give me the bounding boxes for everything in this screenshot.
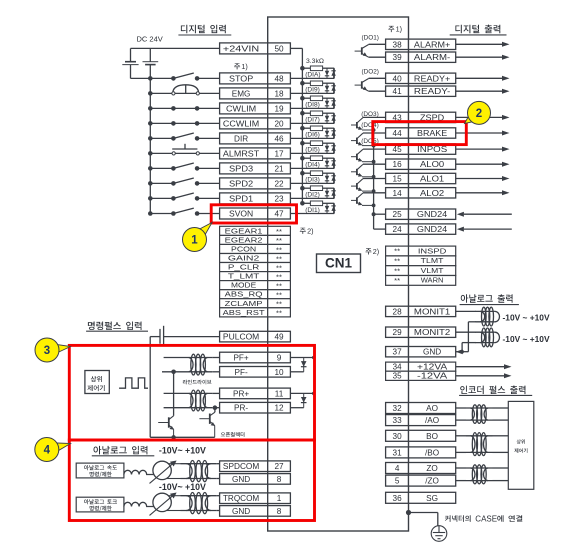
pin EGEAR2 row xyxy=(220,235,268,244)
svg-text:46: 46 xyxy=(274,134,284,143)
svg-text:20: 20 xyxy=(274,119,284,128)
pin CWLIM name box xyxy=(220,103,268,114)
wire output ALARM+ xyxy=(456,43,503,45)
svg-text:(DI8): (DI8) xyxy=(305,102,320,109)
pin ABS_RQ row xyxy=(220,290,268,299)
pin 30 number box xyxy=(386,430,409,441)
svg-text:SPD3: SPD3 xyxy=(229,164,254,173)
svg-text:34: 34 xyxy=(393,363,402,372)
svg-text:4: 4 xyxy=(44,445,51,457)
wire pot to braid bottom xyxy=(167,478,181,480)
wire PF+ to box xyxy=(212,357,219,359)
pin 5 number box xyxy=(386,475,409,486)
switch CCWLIM row xyxy=(150,122,173,124)
transistor (DO4) xyxy=(356,138,358,144)
svg-text:32: 32 xyxy=(393,404,403,413)
svg-text:DIR: DIR xyxy=(234,134,248,143)
wire monit1 return xyxy=(468,321,476,323)
highlight box 4 analog xyxy=(69,440,314,521)
optocoupler (DI8) xyxy=(300,96,305,101)
pin 32 number box xyxy=(386,403,409,414)
twisted pair encoder xyxy=(466,407,493,409)
switch SVON row xyxy=(150,213,173,215)
wire emitter rail xyxy=(150,436,215,438)
switch EMG row xyxy=(150,92,173,94)
pin 20 number box xyxy=(268,118,291,129)
pin 21 number box xyxy=(268,163,291,174)
pin TLMT row xyxy=(386,256,409,266)
svg-text:VLMT: VLMT xyxy=(421,266,444,275)
transistor Q2 xyxy=(209,414,211,424)
svg-text:15: 15 xyxy=(393,175,403,184)
pin /AO name box xyxy=(409,415,456,426)
pin SPD1 name box xyxy=(220,193,268,204)
svg-text:48: 48 xyxy=(274,74,284,83)
svg-text:**: ** xyxy=(276,309,282,318)
squiggle wire xyxy=(124,470,154,474)
capacitor pulcom coupling xyxy=(159,329,161,344)
svg-text:CCWLIM: CCWLIM xyxy=(223,119,259,128)
svg-text:16: 16 xyxy=(393,160,403,169)
wire monit2 return xyxy=(462,342,476,344)
wire PF- to box xyxy=(212,371,219,373)
pin 17 number box xyxy=(268,148,291,159)
svg-text:GND24: GND24 xyxy=(417,225,448,234)
pin PULCOM name box xyxy=(220,331,268,342)
pin EGEAR1 row xyxy=(220,226,268,235)
svg-text:24: 24 xyxy=(393,225,403,234)
wire gnd24 input xyxy=(464,213,512,215)
switch SPD2 row xyxy=(150,182,173,184)
pin BRAKE name box xyxy=(409,128,456,138)
svg-text:/BO: /BO xyxy=(425,448,439,457)
pin GND name box xyxy=(409,347,456,357)
svg-text:SPD2: SPD2 xyxy=(229,179,254,188)
svg-text:PF-: PF- xyxy=(234,368,247,377)
svg-text:CN1: CN1 xyxy=(325,256,352,271)
pin +12VA name box xyxy=(409,362,456,371)
pin 11 number box xyxy=(268,388,291,399)
note ju2 left xyxy=(300,228,306,234)
transistor Q1 xyxy=(168,417,170,427)
pin SVON name box xyxy=(220,208,268,219)
optocoupler (DI7) xyxy=(300,111,305,116)
wire PULCOM left xyxy=(164,336,220,338)
header digital input xyxy=(181,25,226,34)
pin 18 number box xyxy=(268,88,291,99)
pin /BO name box xyxy=(409,447,456,458)
wire encoder pair xyxy=(456,435,466,437)
svg-text:/AO: /AO xyxy=(425,416,439,425)
svg-text:38: 38 xyxy=(393,40,403,49)
wire +12VA xyxy=(456,366,505,368)
optocoupler (DI1) xyxy=(300,201,305,206)
pin MODE row xyxy=(220,281,268,290)
pin 33 number box xyxy=(386,415,409,426)
pin MONIT1 name box xyxy=(409,306,456,316)
pin 23 number box xyxy=(268,193,291,204)
transistor QALO1 xyxy=(356,183,358,189)
svg-text:MODE: MODE xyxy=(231,281,256,290)
wire gnd analog xyxy=(456,351,469,353)
source box 아날로그 속도 xyxy=(76,463,124,478)
wire output ALARM- xyxy=(456,56,503,58)
svg-text:T_LMT: T_LMT xyxy=(228,272,260,281)
svg-text:33: 33 xyxy=(393,416,403,425)
svg-text:**: ** xyxy=(394,247,400,256)
svg-text:29: 29 xyxy=(393,328,403,337)
svg-text:EGEAR2: EGEAR2 xyxy=(225,235,263,244)
pin 8 number box xyxy=(268,474,291,485)
svg-text:ALARM-: ALARM- xyxy=(414,53,451,62)
pin ALO0 name box xyxy=(409,159,456,169)
wire PR- stub xyxy=(164,407,184,409)
svg-text:**: ** xyxy=(394,257,400,266)
wire encoder to host xyxy=(493,435,509,437)
svg-text:ZCLAMP: ZCLAMP xyxy=(225,299,263,308)
pin 49 number box xyxy=(268,331,291,342)
svg-text:GAIN2: GAIN2 xyxy=(228,254,260,263)
svg-text:2): 2) xyxy=(307,226,313,235)
optocoupler (DIA) xyxy=(300,66,305,71)
svg-text:ZO: ZO xyxy=(426,464,437,473)
wire Q2 collector riser xyxy=(214,408,216,413)
svg-text:49: 49 xyxy=(274,333,284,342)
svg-text:PR+: PR+ xyxy=(233,389,249,398)
wire collector BRAKE xyxy=(363,132,386,134)
pin GND24 name box xyxy=(409,209,456,219)
pin 50 number box xyxy=(268,43,291,54)
svg-text:+24VIN: +24VIN xyxy=(223,44,259,53)
wire +24V top xyxy=(131,47,220,49)
switch CWLIM row xyxy=(150,107,173,109)
pin PF+ name box xyxy=(220,352,268,363)
svg-text:+12VA: +12VA xyxy=(417,363,448,372)
wire battery bottom xyxy=(131,77,151,79)
wire pot to braid top xyxy=(168,495,180,497)
wire PF- stub xyxy=(162,371,184,373)
callout 1 xyxy=(198,223,212,237)
svg-text:-12VA: -12VA xyxy=(417,372,448,381)
svg-text:-10V ~ +10V: -10V ~ +10V xyxy=(503,334,550,344)
pin AO name box xyxy=(409,403,456,414)
svg-text:10: 10 xyxy=(274,368,284,377)
svg-text:(DO1): (DO1) xyxy=(362,34,379,41)
wire PF+ stub xyxy=(164,357,184,359)
svg-text:(DI1): (DI1) xyxy=(305,207,320,214)
pin 40 number box xyxy=(386,73,409,83)
callout 2 xyxy=(465,115,475,124)
wire output READY+ xyxy=(456,77,503,79)
twisted pair PF coils xyxy=(184,357,212,359)
wire output INPOS xyxy=(456,148,503,150)
svg-text:ALO1: ALO1 xyxy=(420,175,445,184)
optocoupler (DI9) xyxy=(300,81,305,86)
connector CN1 outline xyxy=(268,17,409,531)
svg-text:AO: AO xyxy=(426,404,438,413)
svg-text:8: 8 xyxy=(277,475,282,484)
svg-text:BO: BO xyxy=(426,432,438,441)
svg-text:EMG: EMG xyxy=(232,89,251,98)
transistor QALO0 xyxy=(356,169,358,175)
svg-text:1: 1 xyxy=(277,494,282,503)
pin 39 number box xyxy=(386,52,409,62)
pin 46 number box xyxy=(268,133,291,144)
svg-text:2: 2 xyxy=(476,108,482,120)
pin GND name box xyxy=(220,506,268,517)
svg-text:READY-: READY- xyxy=(414,87,451,96)
squiggle wire xyxy=(124,502,154,506)
note ju1 left xyxy=(234,63,240,69)
transistor (DO5) xyxy=(356,154,358,160)
svg-text:21: 21 xyxy=(274,164,284,173)
pin 31 number box xyxy=(386,447,409,458)
battery cell left xyxy=(130,48,132,61)
svg-text:ALMRST: ALMRST xyxy=(223,149,259,158)
pin SPD2 name box xyxy=(220,178,268,189)
svg-text:EGEAR1: EGEAR1 xyxy=(225,226,263,235)
pin ABS_RST row xyxy=(220,308,268,317)
svg-text:DC 24V: DC 24V xyxy=(137,35,163,44)
pin 41 number box xyxy=(386,86,409,96)
svg-text:READY+: READY+ xyxy=(414,74,451,83)
wire gnd24 bus join xyxy=(372,212,376,216)
pin SPDCOM name box xyxy=(220,461,268,472)
svg-text:4: 4 xyxy=(395,464,400,473)
svg-text:39: 39 xyxy=(393,53,403,62)
wire case xyxy=(406,510,411,515)
svg-text:27: 27 xyxy=(274,462,284,471)
pin DIR name box xyxy=(220,133,268,144)
svg-text:-10V~ +10V: -10V~ +10V xyxy=(159,482,206,492)
pin 4 number box xyxy=(386,463,409,474)
pin 15 number box xyxy=(386,173,409,183)
callout 4 xyxy=(55,443,71,452)
pin GND name box xyxy=(220,474,268,485)
svg-text:-10V~ +10V: -10V~ +10V xyxy=(159,445,206,455)
pin CCWLIM name box xyxy=(220,118,268,129)
wire collector ALO0 xyxy=(363,163,386,165)
wire PR- to box xyxy=(212,407,219,409)
svg-text:/ZO: /ZO xyxy=(425,477,439,486)
pin BO name box xyxy=(409,430,456,441)
svg-text:ABS_RST: ABS_RST xyxy=(223,308,265,317)
pin PF- name box xyxy=(220,367,268,378)
pin TRQCOM name box xyxy=(220,493,268,504)
wire monit2 xyxy=(456,331,476,333)
twisted pair analog braid xyxy=(181,463,217,465)
earth ground symbol xyxy=(431,526,447,542)
wire PR+ stub xyxy=(164,392,184,394)
wire encoder to host xyxy=(493,467,509,469)
svg-text:ABS_RQ: ABS_RQ xyxy=(225,290,263,299)
svg-text:(DO2): (DO2) xyxy=(362,68,379,75)
pin 1 number box xyxy=(268,493,291,504)
svg-text:TLMT: TLMT xyxy=(421,256,444,265)
svg-text:PR-: PR- xyxy=(234,404,248,413)
svg-text:47: 47 xyxy=(274,210,284,219)
pin EMG name box xyxy=(220,88,268,99)
svg-text:GND: GND xyxy=(423,348,441,357)
svg-text:14: 14 xyxy=(393,189,403,198)
wire pot to braid top xyxy=(168,463,180,465)
pin 47 number box xyxy=(268,208,291,219)
pin 22 number box xyxy=(268,178,291,189)
pin 48 number box xyxy=(268,73,291,84)
svg-text:MONIT1: MONIT1 xyxy=(414,307,451,316)
pin VLMT row xyxy=(386,266,409,276)
svg-text:44: 44 xyxy=(393,129,403,138)
svg-text:INPOS: INPOS xyxy=(417,145,448,154)
pin SPD3 name box xyxy=(220,163,268,174)
wire encoder pair xyxy=(456,467,466,469)
wire Q1 collector riser xyxy=(173,372,175,416)
source box 아날로그 토크 xyxy=(76,497,124,512)
header encoder output xyxy=(460,386,525,395)
host controller box left xyxy=(85,371,109,394)
battery cell right xyxy=(149,48,151,61)
svg-text:GND: GND xyxy=(232,507,250,516)
svg-text:CWLIM: CWLIM xyxy=(226,104,256,113)
optocoupler (DI2) xyxy=(300,186,305,191)
svg-text:PCON: PCON xyxy=(231,245,256,254)
pin 14 number box xyxy=(386,188,409,198)
svg-text:1): 1) xyxy=(241,62,247,71)
svg-text:BRAKE: BRAKE xyxy=(417,129,448,138)
pin ALMRST name box xyxy=(220,148,268,159)
pin INPOS name box xyxy=(409,144,456,154)
highlight box 2 BRAKE xyxy=(373,122,467,145)
potentiometer xyxy=(153,461,171,479)
wire inner left vertical xyxy=(149,337,151,438)
note ju2 right xyxy=(366,248,372,254)
header digital output xyxy=(455,25,500,34)
svg-text:12: 12 xyxy=(274,404,284,413)
svg-text:SG: SG xyxy=(426,494,438,503)
wire gnd24 input xyxy=(464,228,512,230)
svg-text:TRQCOM: TRQCOM xyxy=(223,494,259,503)
optocoupler (DI5) xyxy=(300,141,305,146)
wire encoder to host xyxy=(493,407,509,409)
diode termination xyxy=(290,357,313,359)
pin 25 number box xyxy=(386,209,409,219)
svg-text:INSPD: INSPD xyxy=(418,246,447,255)
svg-text:35: 35 xyxy=(393,372,402,381)
wire PR+ to box xyxy=(212,392,219,394)
twisted pair monit2 xyxy=(476,331,495,333)
label case connect xyxy=(445,515,471,522)
pin 24 number box xyxy=(386,224,409,234)
pin READY+ name box xyxy=(409,73,456,83)
svg-text:SPDCOM: SPDCOM xyxy=(223,462,259,471)
wire output BRAKE xyxy=(456,132,503,134)
optocoupler (DI4) xyxy=(300,156,305,161)
svg-text:**: ** xyxy=(394,276,400,285)
pin 45 number box xyxy=(386,144,409,154)
svg-text:5: 5 xyxy=(395,477,400,486)
twisted pair encoder xyxy=(466,435,493,437)
transistor (DO1) xyxy=(361,47,363,54)
header command pulse input xyxy=(88,322,142,331)
svg-text:2): 2) xyxy=(373,247,379,256)
pulse waveform icon xyxy=(119,378,148,388)
svg-text:ALO0: ALO0 xyxy=(420,160,445,169)
pin +24VIN name box xyxy=(220,43,268,54)
svg-text:23: 23 xyxy=(274,194,284,203)
wire monit1 xyxy=(456,310,476,312)
pin T_LMT row xyxy=(220,272,268,281)
wire collector INPOS xyxy=(363,148,386,150)
svg-text:(DI3): (DI3) xyxy=(305,177,320,184)
svg-text:MONIT2: MONIT2 xyxy=(414,328,451,337)
host controller box right xyxy=(508,401,534,489)
wire +24VIN to opto bus xyxy=(290,47,302,49)
pin 16 number box xyxy=(386,159,409,169)
svg-text:(DI2): (DI2) xyxy=(305,192,320,199)
svg-text:(DI4): (DI4) xyxy=(305,162,320,169)
svg-text:9: 9 xyxy=(277,354,282,363)
svg-text:28: 28 xyxy=(393,307,403,316)
pin ALO1 name box xyxy=(409,173,456,183)
pin 34 number box xyxy=(386,362,409,371)
pin STOP name box xyxy=(220,73,268,84)
pin 12 number box xyxy=(268,402,291,413)
potentiometer xyxy=(153,493,171,511)
wire encoder pair xyxy=(456,407,466,409)
switch DIR row xyxy=(150,137,173,139)
pin 19 number box xyxy=(268,103,291,114)
svg-text:GND24: GND24 xyxy=(417,210,448,219)
pin 37 number box xyxy=(386,347,409,357)
pin 28 number box xyxy=(386,306,409,316)
wire collector ALO2 xyxy=(363,192,386,194)
pin 9 number box xyxy=(268,352,291,363)
transistor (DO2) xyxy=(361,81,363,88)
svg-text:(DI6): (DI6) xyxy=(305,132,320,139)
pin GAIN2 row xyxy=(220,254,268,263)
pin /ZO name box xyxy=(409,475,456,486)
pin WARN row xyxy=(386,276,409,286)
wire -12VA xyxy=(456,375,505,377)
highlight box 3 pulse xyxy=(69,345,314,440)
pin ZSPD name box xyxy=(409,112,456,122)
transistor (DO3) xyxy=(356,122,358,128)
pin GND24 name box xyxy=(409,224,456,234)
svg-text:SVON: SVON xyxy=(229,210,253,219)
svg-text:P_CLR: P_CLR xyxy=(228,263,260,272)
wire output ALO0 xyxy=(456,163,503,165)
svg-text:8: 8 xyxy=(277,507,282,516)
pin MONIT2 name box xyxy=(409,327,456,337)
svg-text:(DO3): (DO3) xyxy=(361,111,378,118)
svg-text:31: 31 xyxy=(393,448,403,457)
svg-text:1: 1 xyxy=(191,235,198,247)
connector label CN1 box xyxy=(317,254,361,273)
switch SPD3 row xyxy=(150,167,173,169)
svg-text:50: 50 xyxy=(274,44,284,53)
twisted pair encoder xyxy=(466,467,493,469)
svg-text:ALARM+: ALARM+ xyxy=(414,40,451,49)
svg-text:17: 17 xyxy=(274,149,284,158)
svg-text:CASE: CASE xyxy=(475,514,497,523)
wire collector ALO1 xyxy=(363,178,386,180)
svg-text:25: 25 xyxy=(393,210,403,219)
optocoupler (DI6) xyxy=(300,126,305,131)
svg-text:SPD1: SPD1 xyxy=(229,194,254,203)
pin PR+ name box xyxy=(220,388,268,399)
svg-text:**: ** xyxy=(394,266,400,275)
wire DO emitter bus xyxy=(373,130,375,214)
